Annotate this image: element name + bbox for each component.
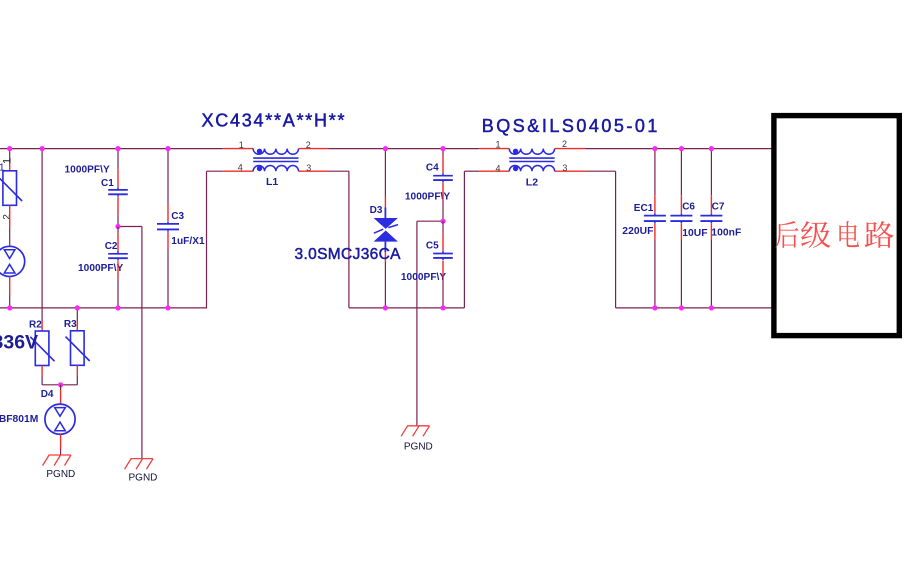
svg-text:220UF: 220UF [622, 226, 653, 237]
wire L1 pin4 [223, 170, 253, 172]
wire C7 top pin [710, 149, 712, 213]
wire to L2 pin4 [464, 170, 479, 172]
ground PGND1 [43, 455, 76, 480]
label title XC434**A**H** [202, 110, 347, 130]
pin L1 numbers [238, 140, 312, 173]
svg-text:1uF/X1: 1uF/X1 [171, 236, 205, 247]
label BF801M [0, 414, 38, 425]
wire bottom-left rail [0, 307, 207, 309]
wire RV1 top pin [9, 149, 11, 171]
wire R3 bottom pin [76, 365, 78, 385]
pin L2 numbers [496, 139, 568, 173]
wire L2 pin1 [479, 148, 509, 150]
wire C1-C2 midpoint to PGND [118, 227, 142, 460]
svg-text:3: 3 [562, 163, 567, 173]
label C6 [682, 202, 695, 213]
wire D3 bottom [384, 242, 386, 308]
wire C6 bottom pin [680, 224, 682, 308]
svg-text:PGND: PGND [46, 469, 75, 480]
wire C6 top pin [680, 149, 682, 213]
wire R2 bottom pin [41, 366, 43, 385]
wire L2 pin2 to load box [585, 148, 771, 150]
node top rail junction 4 [165, 146, 170, 151]
wire L1 pin2 [299, 148, 329, 150]
wire C4-C5 midpoint to PGND [417, 221, 443, 426]
wire C4 top pin [442, 149, 444, 174]
capacitor C3 [157, 222, 179, 232]
svg-text:1: 1 [496, 140, 501, 150]
wire C4 bottom pin [442, 183, 444, 221]
capacitor EC1 [644, 213, 666, 223]
svg-text:10UF: 10UF [682, 228, 707, 239]
wire bottom-mid rail [349, 307, 465, 309]
svg-text:2: 2 [562, 139, 567, 149]
wire to L1 pin4 [207, 170, 224, 172]
wire L2 pin3 [555, 170, 586, 172]
svg-text:C2: C2 [105, 241, 118, 252]
label C3 [171, 211, 184, 222]
node top rail junction 6 [440, 146, 445, 151]
node bottom rail junction 5 [383, 305, 388, 310]
label C2 value [78, 263, 124, 274]
svg-text:3.0SMCJ36CA: 3.0SMCJ36CA [295, 246, 402, 263]
svg-text:D3: D3 [370, 205, 383, 216]
svg-text:R2: R2 [29, 319, 42, 330]
wire L2 pin4 [479, 170, 509, 172]
svg-text:XC434**A**H**: XC434**A**H** [202, 110, 347, 130]
label C5 [426, 240, 439, 251]
wire C2 bottom pin [117, 261, 119, 308]
node top rail junction 9 [709, 146, 714, 151]
label C4 [426, 162, 439, 173]
wire C1 bottom pin [117, 197, 119, 226]
node top rail junction 3 [115, 146, 120, 151]
svg-text:2: 2 [2, 214, 13, 219]
wire R3 branch from bottom rail [76, 308, 78, 331]
svg-text:R3: R3 [64, 319, 77, 330]
label 336V [0, 331, 38, 353]
label EC1 [634, 203, 654, 214]
node bottom rail junction 7 [652, 305, 657, 310]
diode D3 TVS [374, 218, 398, 242]
ground PGND3 [401, 426, 433, 453]
label rear-stage circuit text [776, 221, 894, 248]
wire L1 pin1 [223, 148, 253, 150]
wire D3 top [384, 149, 386, 219]
pin RV1 1 labels [0, 158, 13, 174]
wire junction to D4 [60, 385, 62, 404]
label C7 value [711, 228, 741, 239]
inductor L1 [253, 149, 298, 172]
svg-text:C3: C3 [171, 211, 184, 222]
svg-text:EC1: EC1 [634, 203, 654, 214]
label C3 value [171, 236, 205, 247]
svg-text:BQS&ILS0405-01: BQS&ILS0405-01 [482, 116, 660, 136]
wire L2 pin2 [555, 148, 586, 150]
wire R2-R3 join [42, 384, 77, 386]
svg-text:4: 4 [238, 163, 243, 173]
label C4 value [405, 191, 451, 202]
svg-text:L1: L1 [266, 176, 278, 188]
svg-text:4: 4 [496, 163, 501, 173]
node C1-C2 midpoint [115, 224, 120, 229]
svg-text:1000PF\Y: 1000PF\Y [78, 263, 124, 274]
capacitor C5 [433, 251, 453, 260]
pin RV1 2 label [2, 214, 13, 219]
wire R2 branch from top rail [41, 149, 43, 331]
node bottom rail junction 1 [7, 305, 12, 310]
svg-text:C7: C7 [712, 201, 725, 212]
wire C2 top pin [117, 227, 119, 252]
diode D4 label [41, 389, 54, 400]
label L1 [266, 176, 278, 188]
ground PGND2 [125, 459, 158, 484]
diode D3 label [370, 205, 383, 216]
wire EC1 top pin [654, 149, 656, 213]
wire C7 bottom pin [710, 224, 712, 308]
wire C1 top pin [117, 149, 119, 188]
label C5 value [401, 272, 447, 283]
svg-text:C6: C6 [682, 202, 695, 213]
wire L1 pin2 to L2 pin1 rail [329, 148, 480, 150]
wire top-left rail [0, 148, 223, 150]
gas discharge tube D4 [45, 404, 75, 434]
label C1 value [65, 164, 111, 175]
svg-text:3: 3 [306, 163, 311, 173]
wire riser down from L1 pin3 [348, 171, 350, 308]
node top rail junction 5 [383, 146, 388, 151]
label L2 [526, 176, 538, 188]
node C4-C5 midpoint [440, 219, 445, 224]
wire L1 pin3 [299, 170, 329, 172]
svg-text:C4: C4 [426, 162, 439, 173]
node bottom rail junction 3 [115, 305, 120, 310]
node top rail junction 2 [40, 146, 45, 151]
svg-text:C5: C5 [426, 240, 439, 251]
node bottom rail junction 9 [709, 305, 714, 310]
wire EC1 bottom pin [654, 224, 656, 308]
svg-text:1: 1 [0, 163, 5, 174]
capacitor C7 [700, 213, 722, 223]
node top rail junction 1 [7, 146, 12, 151]
varistor R3 [66, 331, 90, 366]
node bottom rail junction 6 [440, 305, 445, 310]
varistor R2 [30, 331, 54, 366]
svg-text:PGND: PGND [129, 472, 158, 483]
node top rail junction 8 [679, 146, 684, 151]
wire bottom-right rail [616, 307, 772, 309]
node bottom rail junction 2 [75, 305, 80, 310]
svg-text:C1: C1 [101, 178, 114, 189]
resistor R3 label [64, 319, 77, 330]
label C6 value [682, 228, 707, 239]
wire GT1 to bottom rail [9, 277, 11, 308]
capacitor C4 [433, 173, 453, 182]
label 3.0SMCJ36CA [295, 246, 402, 263]
resistor R2 label [29, 319, 42, 330]
svg-text:1: 1 [239, 140, 244, 150]
wire C5 bottom pin [442, 261, 444, 308]
label title BQS&ILS0405-01 [482, 116, 660, 136]
wire C5 top pin [442, 221, 444, 251]
svg-text:PGND: PGND [404, 441, 433, 452]
inductor L2 [509, 149, 554, 172]
varistor RV1 [0, 171, 22, 206]
svg-text:2: 2 [306, 140, 311, 150]
node R2-R3 junction [58, 382, 63, 387]
svg-text:1000PF\Y: 1000PF\Y [401, 272, 447, 283]
label C1 [101, 178, 114, 189]
capacitor C2 [108, 251, 128, 260]
svg-text:336V: 336V [0, 331, 38, 353]
node bottom rail junction 8 [679, 305, 684, 310]
label C2 [105, 241, 118, 252]
wire D4 to PGND [60, 434, 62, 455]
capacitor C6 [670, 213, 692, 223]
label EC1 value [622, 226, 653, 237]
gas discharge tube GT1 [0, 246, 25, 276]
capacitor C1 [108, 188, 128, 197]
load box rear-stage circuit [774, 116, 899, 336]
wire L1 pin3 exit [329, 170, 349, 172]
wire riser down from L2 pin3 [615, 171, 617, 308]
wire C3 top pin [167, 149, 169, 222]
wire C3 bottom pin [167, 232, 169, 308]
node top rail junction 7 [652, 146, 657, 151]
svg-text:BF801M: BF801M [0, 414, 38, 425]
wire riser up to L2 pin4 [463, 171, 465, 308]
svg-text:1000PF\Y: 1000PF\Y [65, 164, 111, 175]
wire RV1 to GT1 [9, 205, 11, 246]
node bottom rail junction 4 [165, 305, 170, 310]
wire L2 pin3 exit [585, 170, 616, 172]
svg-text:L2: L2 [526, 176, 538, 188]
svg-text:100nF: 100nF [711, 228, 741, 239]
wire left riser to L1 pin4 [206, 171, 208, 308]
label C7 [712, 201, 725, 212]
svg-text:D4: D4 [41, 389, 54, 400]
